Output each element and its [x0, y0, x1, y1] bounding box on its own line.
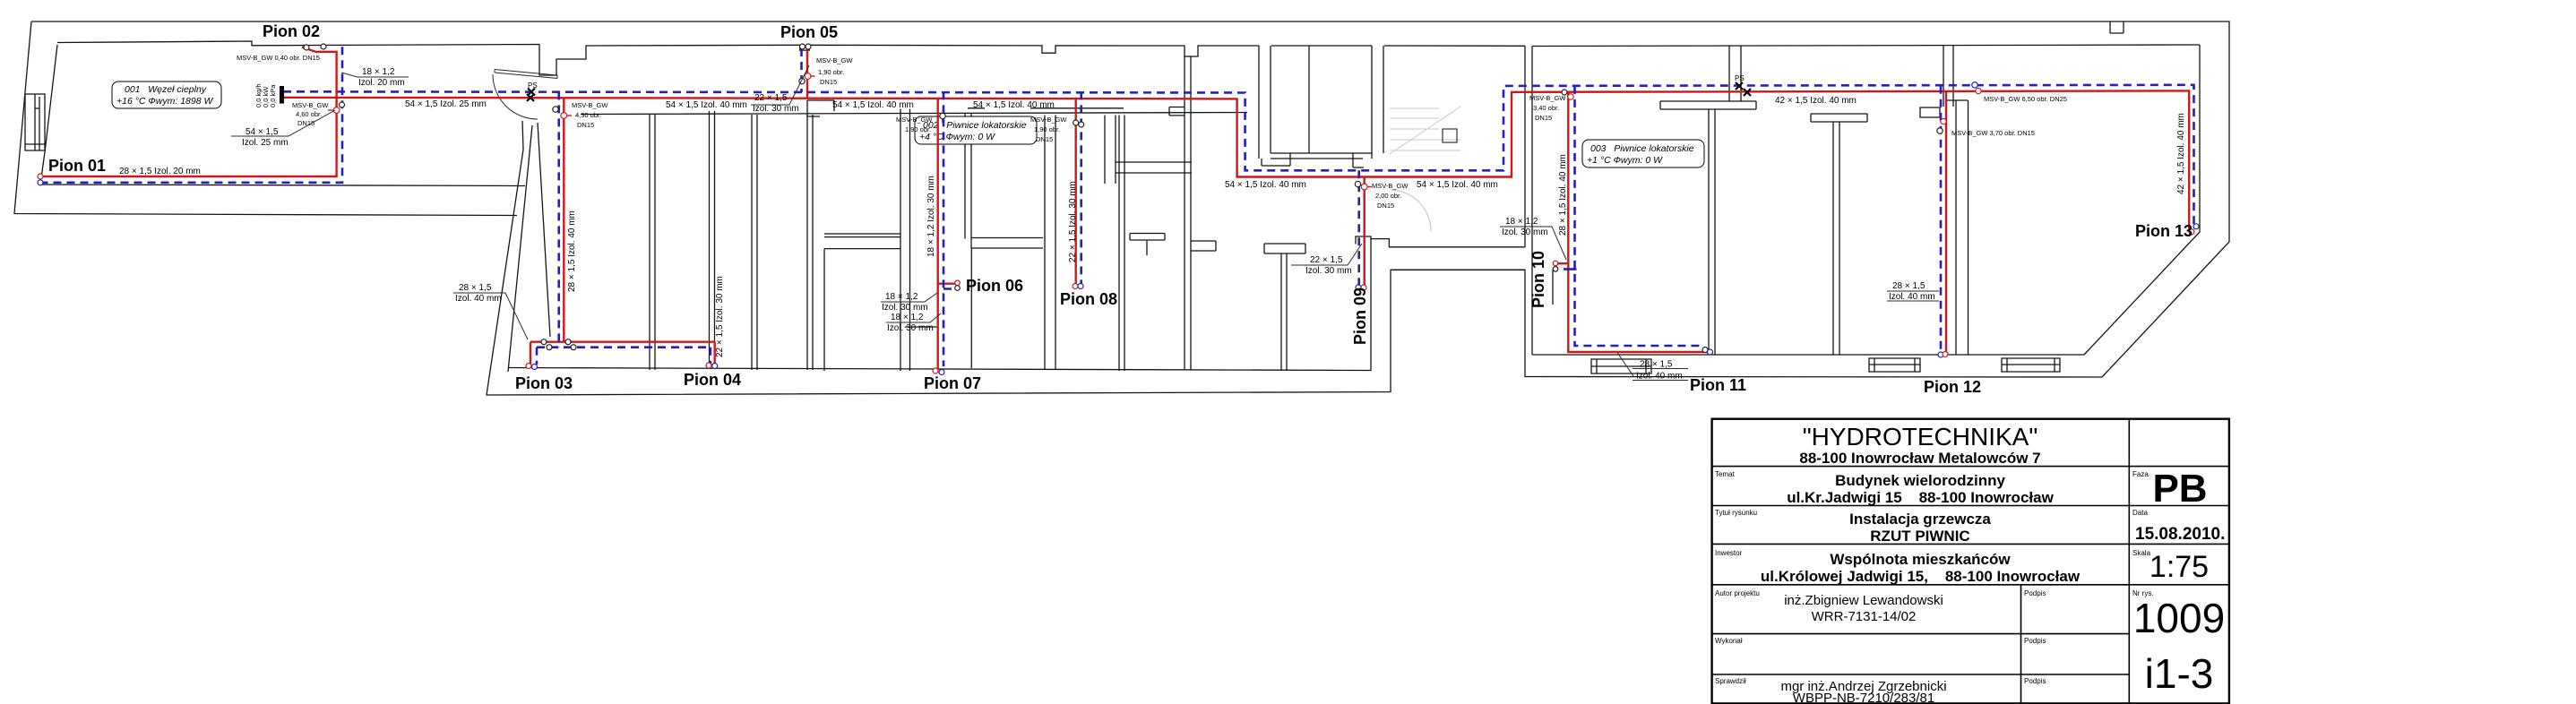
wire leader 22x1.5 pion05: [751, 65, 809, 105]
wire leader 22x1.5 pion09: [1291, 244, 1362, 265]
wire leader 18x1.2 pion10: [1500, 227, 1566, 260]
wire left wing outer bottom and slanted west edge: [14, 21, 517, 216]
svg-text:54 × 1,5 Izol. 25 mm: 54 × 1,5 Izol. 25 mm: [405, 99, 487, 109]
svg-text:PS: PS: [528, 82, 538, 90]
svg-text:Faza: Faza: [2132, 470, 2149, 478]
svg-text:Izol. 30 mm: Izol. 30 mm: [753, 104, 799, 114]
pipe pion 10 stub blue: [1564, 268, 1577, 270]
wall middle section inner bottom: [508, 236, 1371, 371]
valve pion 11 end circles: [1702, 348, 1708, 353]
svg-text:28 × 1,5: 28 × 1,5: [1640, 360, 1673, 370]
pipe right wing loop blue: [1575, 86, 1703, 346]
wall partition P1: [650, 115, 655, 370]
wall flange left of P8: [1169, 107, 1185, 116]
node box 002 piwnice lokatorskie: [915, 116, 1037, 144]
valve pion 03 run circles: [541, 339, 547, 345]
node box 003 piwnice lokatorskie: [1582, 140, 1704, 167]
svg-text:1:75: 1:75: [2150, 550, 2209, 584]
wall partition P7: [1119, 116, 1124, 372]
svg-text:DN15: DN15: [1036, 135, 1053, 143]
valve pion 12 bottom circles: [1938, 352, 1943, 357]
svg-text:3,40 obr.: 3,40 obr.: [1533, 104, 1559, 112]
svg-text:Pion 04: Pion 04: [684, 371, 741, 389]
svg-text:0,0 kPa: 0,0 kPa: [269, 84, 277, 107]
svg-text:28 × 1,5: 28 × 1,5: [459, 283, 492, 293]
title block column lines: [2021, 419, 2130, 704]
svg-text:Data: Data: [2132, 509, 2148, 517]
svg-text:18 × 1,2: 18 × 1,2: [891, 313, 924, 322]
svg-text:Pion 07: Pion 07: [924, 374, 981, 392]
radiator under pion 11 room: [1591, 359, 1651, 373]
svg-text:Izol. 30 mm: Izol. 30 mm: [1305, 266, 1352, 276]
svg-text:Wspólnota mieszkańców: Wspólnota mieszkańców: [1830, 551, 2011, 568]
elevator block: [1443, 129, 1457, 142]
stairs flight diagonals: [1390, 107, 1460, 154]
svg-text:Podpis: Podpis: [2024, 637, 2046, 645]
wall partition P4: [900, 109, 910, 372]
svg-text:ul.Królowej Jadwigi 15, 88-: ul.Królowej Jadwigi 15, 88-100 Inowrocła…: [1761, 568, 2081, 585]
wall partition P9 with tee head: [1264, 244, 1305, 371]
valve pion 10 circles: [1553, 261, 1558, 266]
svg-text:MSV-B_GW: MSV-B_GW: [292, 101, 329, 109]
title block outer frame: [1712, 419, 2229, 704]
mark PS left cross: [527, 89, 535, 102]
wall stairwell west: [1259, 46, 1290, 166]
pipe supply header bar: [280, 86, 284, 104]
svg-text:003 Piwnice lokatorskie: 003 Piwnice lokatorskie: [1590, 143, 1694, 154]
pipe pion 05 riser blue: [800, 48, 803, 92]
svg-text:MSV-B_GW: MSV-B_GW: [896, 116, 933, 124]
svg-text:Pion 02: Pion 02: [263, 22, 320, 40]
valve pion 09 msv circles: [1355, 181, 1360, 186]
svg-text:MSV-B_GW: MSV-B_GW: [1372, 182, 1409, 190]
wall partition P2: [752, 115, 757, 370]
wire leader 28x1.5 pion03: [453, 293, 528, 339]
svg-text:28 × 1,5 Izol. 40 mm: 28 × 1,5 Izol. 40 mm: [567, 210, 577, 292]
svg-text:28 × 1,5: 28 × 1,5: [1892, 281, 1926, 291]
pipe return main run blue dashed: [283, 85, 2194, 227]
svg-text:Izol. 30 mm: Izol. 30 mm: [882, 303, 928, 313]
valve pion 05 msv circles: [799, 78, 805, 83]
wall room front line middle section: [581, 108, 1247, 115]
wall bar between P7 and P8: [1130, 234, 1165, 256]
svg-text:Skala: Skala: [2132, 549, 2151, 557]
svg-text:Izol. 40 mm: Izol. 40 mm: [455, 294, 502, 304]
radiator under room q2: [1869, 358, 1920, 372]
wall passage notch to right wing: [1371, 239, 1525, 247]
svg-text:Pion 01: Pion 01: [48, 157, 106, 175]
pipe pion 02 stub arrow red: [302, 47, 315, 52]
svg-text:22 × 1,5: 22 × 1,5: [1310, 255, 1343, 265]
valve pion 08 bottom circles: [1073, 284, 1078, 289]
wall right wing west inner: [1525, 46, 1532, 355]
svg-text:Izol. 25 mm: Izol. 25 mm: [242, 138, 289, 148]
wall passage lower line: [1391, 269, 1525, 270]
pipe pion 08 drop red: [1074, 98, 1076, 286]
wall partition P5: [965, 113, 971, 368]
wall door jamb near pion 06: [905, 326, 937, 328]
svg-text:Pion 08: Pion 08: [1060, 290, 1117, 308]
svg-text:Pion 10: Pion 10: [1529, 251, 1547, 308]
svg-text:i1-3: i1-3: [2145, 650, 2214, 697]
svg-text:1,90 obr.: 1,90 obr.: [818, 68, 844, 76]
valve pion 04 bottom circles: [706, 363, 711, 368]
pipe pion 02 return branch blue: [42, 47, 342, 183]
svg-text:Instalacja grzewcza: Instalacja grzewcza: [1849, 511, 1991, 528]
svg-text:Pion 05: Pion 05: [780, 23, 838, 41]
wall step detail south of pion05: [807, 100, 834, 116]
wall partition Q3 with head bar: [1920, 100, 1969, 355]
svg-text:MSV-B_GW: MSV-B_GW: [572, 101, 608, 109]
svg-text:22 × 1,5 Izol. 30 mm: 22 × 1,5 Izol. 30 mm: [715, 276, 725, 357]
pipe pion 03-04 drop blue: [537, 91, 711, 365]
pipe pion 09 drop blue: [1357, 170, 1360, 286]
pipe pion 06-07 drop blue: [943, 91, 955, 366]
svg-text:15.08.2010.: 15.08.2010.: [2135, 525, 2225, 544]
svg-text:54 × 1,5: 54 × 1,5: [246, 127, 279, 137]
wall corridor wall near stairwell: [1105, 116, 1192, 185]
svg-text:Izol. 40 mm: Izol. 40 mm: [1636, 372, 1683, 382]
BUILDING: [14, 21, 2229, 395]
svg-text:Izol. 40 mm: Izol. 40 mm: [1889, 292, 1935, 302]
svg-text:Pion 11: Pion 11: [1690, 376, 1746, 394]
wall partition Q1 with head bar: [1660, 101, 1756, 355]
svg-text:DN15: DN15: [297, 119, 314, 127]
svg-text:Pion 12: Pion 12: [1924, 378, 1981, 396]
svg-text:Pion 03: Pion 03: [515, 374, 573, 392]
svg-text:18 × 1,2: 18 × 1,2: [362, 67, 395, 77]
wire outer building boundary: [31, 21, 2229, 395]
svg-text:+1 °C Фwym: 0 W: +1 °C Фwym: 0 W: [1587, 155, 1663, 166]
wall partition P1b: [710, 111, 715, 368]
wall partition P6: [1045, 116, 1055, 371]
svg-text:54 × 1,5 Izol. 40 mm: 54 × 1,5 Izol. 40 mm: [832, 100, 914, 110]
wall stairwell east: [1353, 46, 1383, 167]
svg-text:MSV-B_GW: MSV-B_GW: [1030, 116, 1067, 124]
mark PS right cross: [1736, 82, 1751, 96]
svg-text:WBPP-NB-7210/283/81: WBPP-NB-7210/283/81: [1793, 691, 1934, 704]
svg-text:Izol. 30 mm: Izol. 30 mm: [1502, 228, 1548, 237]
wall partition P8: [1185, 56, 1216, 370]
wire door threshold entrance: [495, 70, 557, 79]
svg-text:18 × 1,2 Izol. 30 mm: 18 × 1,2 Izol. 30 mm: [926, 176, 936, 257]
svg-text:28 × 1,5 Izol. 40 mm: 28 × 1,5 Izol. 40 mm: [1558, 154, 1568, 236]
svg-text:DN15: DN15: [1535, 114, 1552, 122]
svg-text:Inwestor: Inwestor: [1715, 549, 1743, 557]
pipe pion 02 supply branch red: [41, 52, 337, 176]
svg-text:1,90 obr.: 1,90 obr.: [1034, 125, 1060, 133]
wall partition Q2 with head bar: [1811, 114, 1867, 355]
svg-text:22 × 1,5 Izol. 30 mm: 22 × 1,5 Izol. 30 mm: [1068, 181, 1078, 262]
wire leader 54x1.5: [231, 110, 335, 136]
valve pion 05 top circles: [800, 44, 806, 49]
pipe pion 05 riser red: [806, 47, 808, 99]
pipe supply main run red: [283, 90, 2189, 231]
svg-text:1009: 1009: [2133, 595, 2225, 641]
wall chimney flue boxes top-left: [25, 94, 45, 150]
svg-text:RZUT PIWNIC: RZUT PIWNIC: [1870, 528, 1969, 545]
valve pion 12 msv circles: [1941, 118, 1946, 124]
wall right wing inner bottom: [1532, 354, 2084, 356]
svg-text:Izol. 20 mm: Izol. 20 mm: [358, 78, 405, 88]
wall mid horizontal wall a: [824, 234, 900, 371]
valve pion 01 end circles: [38, 174, 43, 179]
svg-text:54 × 1,5 Izol. 40 mm: 54 × 1,5 Izol. 40 mm: [1225, 180, 1306, 190]
title block row lines: [1712, 467, 2229, 674]
wall left wing inner west slant: [40, 45, 57, 185]
svg-text:4,30 obr.: 4,30 obr.: [575, 111, 601, 119]
svg-text:Sprawdził: Sprawdził: [1715, 677, 1746, 685]
valve right wing top msv circles: [1562, 90, 1567, 95]
svg-text:MSV-B_GW 6,50 obr. DN25: MSV-B_GW 6,50 obr. DN25: [1984, 95, 2067, 103]
wall right wing inner diagonal and east inner: [2084, 45, 2200, 355]
valve pion 06 circles: [955, 280, 961, 286]
wall left wing inner top edge: [57, 41, 1525, 75]
svg-text:42 × 1,5 Izol. 40 mm: 42 × 1,5 Izol. 40 mm: [2176, 113, 2186, 194]
wall stairwell bottom: [1271, 46, 1363, 159]
door arc right wing entry: [1391, 190, 1431, 232]
svg-text:DN15: DN15: [1377, 202, 1394, 210]
svg-text:Wykonał: Wykonał: [1715, 637, 1743, 645]
svg-text:Pion 13: Pion 13: [2135, 222, 2193, 240]
svg-text:+16 °C Фwym: 1898 W: +16 °C Фwym: 1898 W: [116, 96, 213, 107]
valve pion 08 top circles: [1073, 120, 1079, 125]
valve pion 07 bottom circles: [933, 368, 938, 373]
svg-text:MSV-B_GW: MSV-B_GW: [1529, 94, 1566, 102]
radiator under room q3: [2002, 358, 2060, 372]
wall mid horizontal wall b: [971, 238, 1043, 249]
svg-text:ul.Kr.Jadwigi 15 88-100 Ino: ul.Kr.Jadwigi 15 88-100 Inowrocław: [1787, 489, 2054, 506]
svg-text:18 × 1,2: 18 × 1,2: [885, 292, 918, 302]
svg-text:28 × 1,5 Izol. 20 mm: 28 × 1,5 Izol. 20 mm: [119, 167, 201, 176]
pipe right wing loop red: [1568, 92, 1707, 352]
svg-text:88-100 Inowrocław Metalowców 7: 88-100 Inowrocław Metalowców 7: [1799, 450, 2040, 467]
wall door jamb right wing entry: [1552, 270, 1554, 305]
svg-text:WRR-7131-14/02: WRR-7131-14/02: [1812, 609, 1917, 624]
node box 001 wezel cieplny: [112, 82, 221, 108]
svg-text:54 × 1,5 Izol. 40 mm: 54 × 1,5 Izol. 40 mm: [1417, 180, 1498, 190]
svg-text:DN15: DN15: [577, 121, 594, 129]
pipe pion 12 drop blue: [1940, 86, 1943, 356]
svg-text:42 × 1,5 Izol. 40 mm: 42 × 1,5 Izol. 40 mm: [1775, 96, 1857, 106]
wall top pilaster c: [2110, 21, 2124, 33]
svg-text:MSV-B_GW 3,70 obr. DN15: MSV-B_GW 3,70 obr. DN15: [1951, 129, 2035, 137]
svg-text:54 × 1,5 Izol. 40 mm: 54 × 1,5 Izol. 40 mm: [666, 100, 747, 110]
valve pion 03 tee circles: [553, 107, 558, 112]
svg-text:4,60 obr.: 4,60 obr.: [296, 110, 322, 118]
valve pion 09 bottom circles: [1356, 285, 1361, 290]
wall right wing inner top edge: [1532, 45, 2200, 47]
wire leaders 18x1.2 pion06: [881, 293, 941, 322]
svg-text:Izol. 30 mm: Izol. 30 mm: [887, 323, 934, 333]
svg-text:Podpis: Podpis: [2024, 589, 2046, 597]
svg-text:Pion 06: Pion 06: [966, 277, 1023, 295]
valve pion 03 bottom circles: [526, 364, 531, 369]
svg-text:001 Węzeł cieplny: 001 Węzeł cieplny: [125, 84, 207, 95]
svg-text:PS: PS: [1735, 74, 1745, 82]
door arc main entrance: [493, 74, 538, 119]
pipe pion 09 drop red: [1363, 177, 1365, 288]
svg-text:2,00 obr.: 2,00 obr.: [1375, 192, 1401, 200]
svg-text:Budynek wielorodzinny: Budynek wielorodzinny: [1835, 472, 2005, 489]
TITLEBLOCK: [1712, 419, 2229, 704]
svg-text:18 × 1,2: 18 × 1,2: [1505, 217, 1538, 227]
wall left wing inner bottom: [40, 185, 525, 186]
svg-text:"HYDROTECHNIKA": "HYDROTECHNIKA": [1803, 423, 2038, 451]
svg-text:22 × 1,5: 22 × 1,5: [754, 93, 788, 103]
svg-text:1,90 obr.: 1,90 obr.: [905, 125, 931, 133]
valve pion 13 end circles: [2193, 224, 2199, 229]
svg-text:MSV-B_GW 0,40 obr. DN15: MSV-B_GW 0,40 obr. DN15: [237, 54, 320, 62]
pipe pion 03-04 drop red: [530, 98, 715, 367]
svg-text:inż.Zbigniew Lewandowski: inż.Zbigniew Lewandowski: [1784, 593, 1943, 608]
pipe pion 10 stub red: [1556, 262, 1569, 264]
pipe pion 08 drop blue: [1080, 91, 1082, 285]
pipe pion 06-07 drop red: [938, 98, 958, 369]
svg-text:Pion 09: Pion 09: [1351, 288, 1369, 345]
valve dn25 main circles: [1972, 82, 1977, 88]
svg-text:Podpis: Podpis: [2024, 677, 2046, 685]
wire leader 28x1.5 pion11: [1617, 353, 1688, 381]
wire leader 18x1.2: [341, 73, 409, 77]
pipe pion 12 drop red: [1945, 92, 1947, 355]
svg-text:PB: PB: [2152, 467, 2207, 511]
wall chimney pair above partition Q1: [1729, 46, 1741, 101]
valve pion 02 top circles: [304, 45, 309, 50]
wall chimney pair above partition Q3: [1943, 46, 1953, 107]
valve msv pion 02 riser: [333, 107, 340, 114]
svg-text:Tytuł rysunku: Tytuł rysunku: [1715, 509, 1757, 517]
wall middle section inner west slant: [508, 123, 550, 372]
svg-text:54 × 1,5 Izol. 40 mm: 54 × 1,5 Izol. 40 mm: [973, 100, 1055, 110]
svg-text:Temat: Temat: [1715, 470, 1736, 478]
wall partition P3: [807, 115, 813, 370]
valve pion 07 top circles: [940, 113, 945, 118]
svg-text:MSV-B_GW: MSV-B_GW: [816, 56, 853, 64]
wire leader 28x1.5 pion12: [1887, 291, 1939, 301]
svg-text:Autor projektu: Autor projektu: [1715, 589, 1760, 597]
svg-text:DN15: DN15: [820, 78, 837, 86]
